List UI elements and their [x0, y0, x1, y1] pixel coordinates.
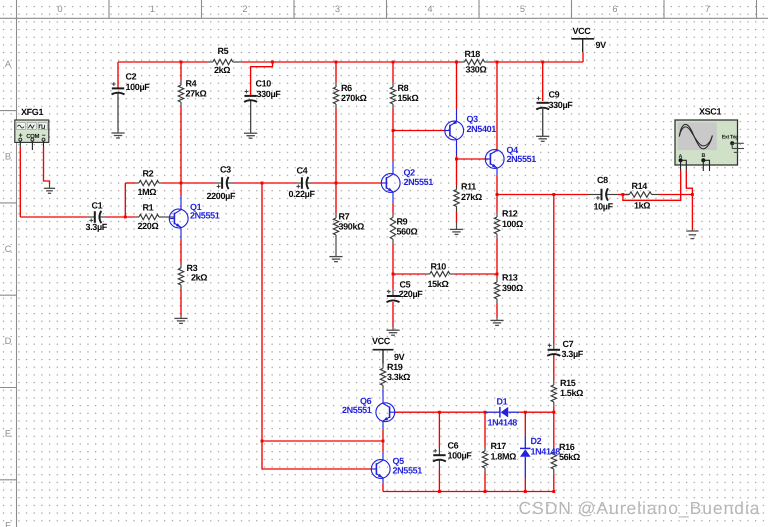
XSC1 terminal B pins [701, 158, 709, 171]
junction [552, 490, 555, 493]
resistor R13 390 [494, 278, 499, 304]
capacitor C6 100uF [433, 448, 446, 471]
wire Q4 emitter to output node [496, 176, 498, 195]
transistor Q2 2N5551 [381, 162, 400, 205]
svg-text:0.22µF: 0.22µF [289, 189, 316, 199]
junction [484, 411, 487, 414]
wire rail to R8 [392, 62, 394, 83]
svg-text:R16: R16 [559, 442, 575, 452]
wire Q6 base to D1 [395, 411, 485, 413]
ground under R7 [329, 240, 342, 262]
svg-text:C1: C1 [92, 201, 103, 211]
junction [392, 273, 395, 276]
wire scope A- to ground node [686, 171, 692, 195]
wire feedback vertical [261, 183, 263, 441]
wire R19 to Q6 collector [382, 390, 384, 392]
svg-text:2N5551: 2N5551 [393, 466, 423, 476]
transistor Q3 2N5401 [445, 110, 464, 156]
svg-text:27kΩ: 27kΩ [186, 89, 207, 99]
wire R2 to base node [124, 183, 126, 217]
wire D2 to bottom rail [524, 478, 526, 492]
svg-text:0: 0 [57, 4, 62, 14]
wire C4 to Q2 base [312, 182, 382, 184]
capacitor C7 3.3uF [547, 344, 560, 356]
resistor R11 27k [454, 185, 459, 211]
resistor R7 390k [333, 214, 338, 240]
resistor R14 1k [626, 192, 659, 197]
junction [484, 490, 487, 493]
svg-text:D: D [5, 336, 12, 346]
svg-text:VCC: VCC [372, 336, 391, 346]
svg-text:1.8MΩ: 1.8MΩ [491, 451, 517, 461]
wire top rail left segment [118, 61, 207, 63]
wire rail to C9 [542, 62, 544, 101]
svg-text:330µF: 330µF [549, 100, 574, 110]
svg-text:C10: C10 [256, 78, 272, 88]
wire VCC stub [582, 52, 584, 62]
wire C5 to ground [392, 302, 394, 327]
svg-text:C4: C4 [297, 166, 308, 176]
wire R4 to Q1 collector [180, 107, 182, 196]
diode D2 1N4148 [520, 435, 531, 478]
svg-text:D2: D2 [531, 436, 542, 446]
svg-text:R12: R12 [502, 209, 518, 219]
XSC1 terminal A pins [679, 158, 687, 170]
svg-text:3.3µF: 3.3µF [86, 222, 108, 232]
wire C8 node to scope A+ [623, 171, 681, 201]
svg-text:R11: R11 [461, 182, 476, 192]
svg-text:1kΩ: 1kΩ [634, 200, 650, 210]
capacitor C8 10uF [589, 188, 618, 200]
wire R2 left lead [125, 182, 136, 184]
resistor R18 330 [461, 59, 490, 64]
wire C3 to C4 [234, 182, 297, 184]
wire R12 to R13 node [496, 239, 498, 275]
capacitor C3 2200uF [216, 177, 234, 189]
wire C6 to bottom rail [438, 470, 440, 492]
junction [552, 411, 555, 414]
wire node to ground [691, 195, 693, 230]
wire output node right [497, 194, 554, 196]
svg-text:2kΩ: 2kΩ [214, 65, 230, 75]
capacitor C2 100uF [112, 82, 125, 130]
svg-text:330Ω: 330Ω [466, 65, 487, 75]
wire rail to R4 [180, 62, 182, 81]
junction [552, 193, 555, 196]
svg-text:R19: R19 [387, 362, 403, 372]
svg-text:390Ω: 390Ω [502, 283, 523, 293]
svg-text:C: C [5, 244, 12, 254]
wire Q3 collector to R11 [456, 156, 458, 186]
resistor R16 56k [551, 448, 556, 474]
svg-text:CSDN @Aureliano_Buendia: CSDN @Aureliano_Buendia [519, 498, 761, 518]
svg-text:2N5551: 2N5551 [190, 210, 220, 220]
junction [335, 182, 338, 185]
wire top rail middle segment [241, 61, 461, 63]
svg-text:R13: R13 [502, 273, 518, 283]
svg-text:R3: R3 [187, 263, 198, 273]
svg-text:1N4148: 1N4148 [531, 447, 561, 457]
wire XFG1 plus terminal down [19, 147, 21, 217]
wire rail tap to C10 [251, 62, 273, 95]
svg-text:220Ω: 220Ω [138, 221, 159, 231]
wire XFG1 minus terminal to ground [44, 147, 50, 184]
junction [621, 193, 624, 196]
junction [455, 158, 458, 161]
svg-text:330µF: 330µF [257, 89, 282, 99]
wire C7 to R15 [553, 355, 555, 381]
wire C2 to rail [117, 62, 119, 88]
capacitor C1 3.3uF [88, 211, 107, 223]
wire R14 to ground node [659, 194, 693, 196]
svg-text:560Ω: 560Ω [397, 226, 418, 236]
svg-text:R7: R7 [339, 212, 350, 222]
svg-text:9V: 9V [394, 352, 405, 362]
svg-text:R1: R1 [143, 202, 154, 212]
svg-text:R2: R2 [143, 168, 154, 178]
ground under R14 node [686, 229, 698, 238]
resistor R9 560 [390, 213, 395, 244]
svg-text:A: A [5, 59, 12, 69]
svg-text:B: B [702, 153, 706, 159]
svg-text:2kΩ: 2kΩ [191, 273, 207, 283]
wire feedback to Q5 collector [262, 440, 383, 442]
wire output down to C7 [553, 195, 555, 345]
instrument XFG1 function generator [15, 120, 49, 150]
svg-text:56kΩ: 56kΩ [559, 452, 580, 462]
wire R10 to R12 node [454, 273, 497, 275]
ground under XFG1 [44, 184, 55, 193]
ground under C2 [111, 94, 124, 138]
svg-text:C5: C5 [400, 279, 411, 289]
junction [438, 490, 441, 493]
svg-text:R8: R8 [398, 83, 409, 93]
junction [271, 61, 274, 64]
wire node to R10 [393, 273, 426, 275]
svg-text:R5: R5 [218, 46, 229, 56]
resistor R17 1.8M [482, 447, 487, 473]
wire bottom rail [383, 491, 554, 493]
resistor R19 3.3k [380, 364, 385, 390]
ground under C9 [536, 108, 549, 142]
wire top rail right segment [489, 61, 583, 63]
svg-text:15kΩ: 15kΩ [398, 93, 419, 103]
svg-text:270kΩ: 270kΩ [341, 93, 367, 103]
resistor R5 2k [207, 59, 241, 64]
wire node to R13 [496, 274, 498, 278]
svg-text:2N5551: 2N5551 [404, 177, 434, 187]
wire bias node to R17 [484, 412, 486, 446]
svg-text:Ext Trig: Ext Trig [722, 135, 738, 141]
wire node to C3 [181, 182, 216, 184]
svg-text:C3: C3 [220, 165, 231, 175]
svg-text:100µF: 100µF [126, 82, 151, 92]
svg-text:R6: R6 [341, 83, 352, 93]
ground under C5 [386, 326, 399, 335]
junction [524, 490, 527, 493]
svg-text:R4: R4 [186, 78, 197, 88]
wire D1 to R15 node [519, 411, 553, 413]
junction [455, 61, 458, 64]
resistor R15 1.5k [551, 380, 556, 406]
resistor R12 100 [494, 213, 499, 239]
svg-text:3.3µF: 3.3µF [562, 349, 584, 359]
wire node to R16 [553, 412, 555, 447]
svg-text:C2: C2 [126, 71, 137, 81]
junction [335, 61, 338, 64]
wire node to C5 [392, 274, 394, 290]
svg-text:100Ω: 100Ω [502, 219, 523, 229]
svg-text:XFG1: XFG1 [21, 107, 43, 117]
svg-text:15kΩ: 15kΩ [428, 279, 449, 289]
wire R8 to Q3 base node [392, 109, 394, 131]
svg-text:Q5: Q5 [393, 456, 405, 466]
capacitor C4 0.22uF [296, 177, 311, 189]
svg-text:F: F [5, 521, 11, 527]
junction [496, 193, 499, 196]
wire node to Q2 collector [392, 131, 394, 162]
svg-text:C6: C6 [448, 441, 459, 451]
junction [124, 216, 127, 219]
svg-text:7: 7 [705, 4, 710, 14]
svg-text:390kΩ: 390kΩ [339, 222, 365, 232]
wire Q5 emitter to bottom rail [382, 484, 384, 492]
wire Q1 emitter to R3 [180, 240, 182, 264]
svg-text:1N4148: 1N4148 [488, 418, 518, 428]
svg-text:R10: R10 [431, 262, 447, 272]
junction [180, 182, 183, 185]
resistor R4 27k [178, 81, 183, 107]
svg-text:E: E [5, 428, 11, 438]
svg-text:XSC1: XSC1 [699, 106, 721, 116]
wire R11 to ground [456, 211, 458, 222]
ground under R11 [450, 222, 463, 234]
junction [496, 273, 499, 276]
wire rail to R6 [335, 62, 337, 83]
wire Q4 base [457, 158, 488, 160]
wire to C1 [20, 216, 88, 218]
junction [180, 61, 183, 64]
svg-text:R15: R15 [560, 378, 576, 388]
svg-text:C7: C7 [563, 339, 574, 349]
svg-text:R17: R17 [491, 441, 507, 451]
wire Q2 emitter to R9 [392, 204, 394, 213]
wire output to R12 [496, 195, 498, 213]
junction [524, 411, 527, 414]
svg-text:R18: R18 [465, 49, 481, 59]
svg-text:220µF: 220µF [399, 289, 424, 299]
capacitor C10 330uF [244, 90, 257, 133]
power VCC 9V top [571, 39, 594, 52]
junction [496, 61, 499, 64]
transistor Q6 2N5551 [376, 392, 395, 431]
resistor R10 15k [426, 271, 454, 276]
svg-text:3.3kΩ: 3.3kΩ [387, 372, 410, 382]
svg-text:1.5kΩ: 1.5kΩ [560, 388, 583, 398]
wire R15 to bias node [553, 406, 555, 412]
wire rail to Q4 collector [496, 62, 498, 152]
resistor R8 15k [390, 83, 395, 109]
resistor R6 270k [333, 83, 338, 109]
power VCC 9V bias [373, 350, 394, 364]
capacitor C9 330uF [536, 97, 549, 136]
wire R3 to ground [180, 290, 182, 316]
svg-text:2: 2 [242, 4, 247, 14]
junction [438, 411, 441, 414]
svg-text:COM: COM [26, 133, 39, 140]
ground under R3 [174, 315, 187, 323]
ground under C10 [244, 102, 257, 139]
wire R6 to mid node [335, 109, 337, 184]
wire mid node to R7 [335, 183, 337, 214]
svg-text:1: 1 [150, 4, 155, 14]
junction [691, 193, 694, 196]
svg-text:27kΩ: 27kΩ [461, 192, 482, 202]
wire R13 to ground [496, 304, 498, 318]
wire to Q5 base [262, 441, 371, 469]
resistor R1 220 [136, 214, 174, 219]
junction [382, 440, 385, 443]
diode D1 1N4148 [485, 407, 519, 418]
svg-text:2N5551: 2N5551 [342, 405, 372, 415]
svg-text:3: 3 [335, 4, 340, 14]
svg-text:D1: D1 [497, 397, 508, 407]
junction [261, 440, 264, 443]
resistor R3 2k [178, 264, 183, 290]
svg-text:100µF: 100µF [448, 451, 473, 461]
junction [541, 61, 544, 64]
wire node to Q5 collector [382, 441, 384, 452]
junction [392, 129, 395, 132]
svg-text:2N5551: 2N5551 [507, 154, 537, 164]
svg-text:R9: R9 [397, 216, 408, 226]
wire node to D2 [524, 412, 526, 435]
transistor Q4 2N5551 [485, 150, 504, 176]
svg-text:6: 6 [612, 4, 617, 14]
ground under R13 [490, 317, 503, 325]
svg-text:5: 5 [520, 4, 525, 14]
wire R2 to Q1 collector node [162, 182, 181, 184]
svg-text:4: 4 [427, 4, 432, 14]
svg-text:Q3: Q3 [467, 114, 479, 124]
XSC1 ext trig pin [730, 141, 744, 152]
svg-text:2200µF: 2200µF [207, 191, 236, 201]
capacitor C5 220uF [387, 290, 400, 303]
svg-text:10µF: 10µF [594, 202, 614, 212]
wire R9 to node [392, 244, 394, 275]
transistor Q1 2N5551 [169, 196, 188, 241]
svg-text:C8: C8 [597, 175, 608, 185]
wire R17 to bottom rail [484, 473, 486, 492]
svg-text:1MΩ: 1MΩ [138, 187, 157, 197]
svg-text:C9: C9 [549, 90, 560, 100]
svg-text:2N5401: 2N5401 [467, 124, 497, 134]
wire R16 to bottom rail [553, 474, 555, 492]
resistor R2 1M [136, 180, 162, 185]
junction [392, 61, 395, 64]
wire Q3 base [393, 130, 445, 132]
wire bias node to C6 [438, 412, 440, 447]
svg-text:VCC: VCC [573, 26, 592, 36]
wire rail to Q3 emitter [456, 62, 458, 110]
junction [261, 182, 264, 185]
transistor Q5 2N5551 [371, 452, 390, 483]
wire Q6 emitter to node [382, 430, 384, 441]
instrument XSC1 oscilloscope [675, 120, 738, 165]
wire C1 to R1 [107, 216, 136, 218]
wire node to C8 [554, 194, 589, 196]
wire C8 to R14 node [618, 194, 629, 196]
svg-text:R14: R14 [632, 181, 648, 191]
svg-text:9V: 9V [596, 40, 607, 50]
svg-text:B: B [5, 152, 11, 162]
